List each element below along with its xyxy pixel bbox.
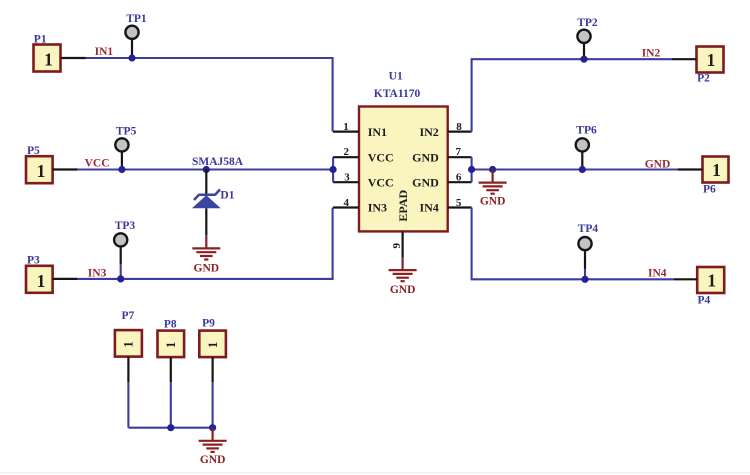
svg-text:GND: GND <box>412 175 439 189</box>
svg-text:1: 1 <box>122 341 136 347</box>
svg-text:SMAJ58A: SMAJ58A <box>192 156 244 168</box>
svg-text:IN4: IN4 <box>419 201 438 215</box>
junction at TP3 <box>117 275 124 282</box>
pin 3 <box>333 181 359 183</box>
svg-text:TP6: TP6 <box>576 125 597 137</box>
svg-text:5: 5 <box>456 197 462 209</box>
svg-text:1: 1 <box>164 342 178 348</box>
svg-text:IN1: IN1 <box>95 46 114 58</box>
svg-text:EPAD: EPAD <box>396 189 410 221</box>
svg-text:GND: GND <box>480 196 506 208</box>
connector P7 <box>115 330 142 382</box>
svg-text:IN2: IN2 <box>419 125 438 139</box>
svg-text:U1: U1 <box>389 71 403 83</box>
wire GND right <box>472 168 678 170</box>
connector P5 <box>26 156 78 183</box>
junction VCC at pins 2-3 <box>330 166 337 173</box>
svg-text:TP4: TP4 <box>578 223 599 235</box>
svg-text:IN2: IN2 <box>642 47 661 59</box>
ground at pin 6-7 net <box>479 170 507 194</box>
svg-text:GND: GND <box>645 159 671 171</box>
pin 4 <box>333 206 359 208</box>
pin 9 (EPAD) <box>402 231 404 257</box>
svg-text:P2: P2 <box>697 72 710 84</box>
svg-text:P8: P8 <box>164 319 177 331</box>
svg-text:6: 6 <box>456 171 462 183</box>
junction at TP4 <box>581 276 588 283</box>
wire VCC vertical (pins 2-3) <box>332 157 334 182</box>
svg-text:GND: GND <box>390 284 416 296</box>
pin 8 <box>448 131 472 133</box>
connector P9 <box>199 331 226 383</box>
ground under D1 <box>192 235 220 259</box>
junction at TP1 <box>128 54 135 61</box>
pin 6 <box>448 181 472 183</box>
test point TP1 <box>125 26 138 58</box>
wire P9 drop <box>212 382 214 427</box>
test point TP4 <box>578 237 591 279</box>
svg-text:P7: P7 <box>122 310 135 322</box>
svg-text:TP3: TP3 <box>115 220 136 232</box>
junction at TP6 <box>579 166 586 173</box>
svg-text:GND: GND <box>194 263 220 275</box>
wire IN2 <box>472 59 672 131</box>
svg-text:P5: P5 <box>27 145 40 157</box>
junction at D1 top <box>203 166 210 173</box>
svg-text:1: 1 <box>707 270 716 290</box>
junction at P8 drop <box>167 424 174 431</box>
junction at TP2 <box>580 56 587 63</box>
svg-text:1: 1 <box>44 50 53 70</box>
svg-text:1: 1 <box>707 50 716 70</box>
bottom edge line <box>0 472 750 474</box>
connector P3 <box>26 266 78 293</box>
test point TP3 <box>114 233 127 279</box>
svg-text:TP2: TP2 <box>577 17 598 29</box>
svg-text:IN1: IN1 <box>368 125 387 139</box>
svg-text:D1: D1 <box>220 190 234 202</box>
svg-text:P4: P4 <box>698 294 711 306</box>
connector P1 <box>34 45 86 72</box>
svg-text:8: 8 <box>456 121 462 133</box>
svg-text:TP1: TP1 <box>126 13 147 25</box>
svg-text:KTA1170: KTA1170 <box>374 88 421 100</box>
pin 2 <box>333 156 359 158</box>
wire VCC <box>78 168 334 170</box>
wire GND vertical (pins 7-6) <box>471 157 473 182</box>
test point TP6 <box>576 138 589 169</box>
wire IN4 <box>472 208 674 280</box>
svg-text:TP5: TP5 <box>116 125 137 137</box>
connector P6 <box>678 157 729 183</box>
svg-text:IN3: IN3 <box>88 268 107 280</box>
svg-text:4: 4 <box>344 197 350 209</box>
svg-text:IN4: IN4 <box>648 267 667 279</box>
svg-text:3: 3 <box>344 171 350 183</box>
svg-text:GND: GND <box>200 454 226 466</box>
diode D1 (zener/TVS) <box>192 170 221 236</box>
svg-text:9: 9 <box>391 243 403 249</box>
svg-text:P3: P3 <box>27 254 40 266</box>
IC U1 body <box>359 107 448 232</box>
svg-text:1: 1 <box>343 121 349 133</box>
svg-text:VCC: VCC <box>85 157 110 169</box>
svg-text:1: 1 <box>37 271 46 291</box>
svg-text:VCC: VCC <box>368 150 394 164</box>
connector P8 <box>158 331 185 383</box>
ground bottom <box>199 428 227 452</box>
svg-text:P9: P9 <box>202 318 215 330</box>
wire P7 drop <box>127 382 129 427</box>
wire P8 drop <box>170 382 172 427</box>
svg-text:1: 1 <box>206 342 220 348</box>
pin 1 <box>333 131 359 133</box>
test point TP5 <box>115 138 128 169</box>
svg-text:2: 2 <box>344 146 350 158</box>
svg-text:VCC: VCC <box>368 175 394 189</box>
pin 7 <box>448 156 472 158</box>
wire bottom bus <box>128 427 212 429</box>
junction at TP5 <box>118 166 125 173</box>
connector P4 <box>674 267 724 293</box>
svg-text:P6: P6 <box>703 183 716 195</box>
wire IN3 <box>78 208 333 279</box>
junction at P9 drop <box>209 424 216 431</box>
wire IN1 <box>86 58 333 132</box>
junction GND at pins 7-6 <box>468 166 475 173</box>
svg-text:7: 7 <box>456 146 462 158</box>
svg-text:P1: P1 <box>34 34 47 46</box>
pin 5 <box>448 206 472 208</box>
junction GND at ground symbol <box>489 166 496 173</box>
svg-text:IN3: IN3 <box>368 201 387 215</box>
connector P2 <box>672 47 724 73</box>
ground at pin 9 <box>389 258 417 281</box>
svg-text:GND: GND <box>412 150 439 164</box>
test point TP2 <box>577 30 590 60</box>
svg-text:1: 1 <box>37 161 46 181</box>
svg-text:1: 1 <box>712 160 721 180</box>
